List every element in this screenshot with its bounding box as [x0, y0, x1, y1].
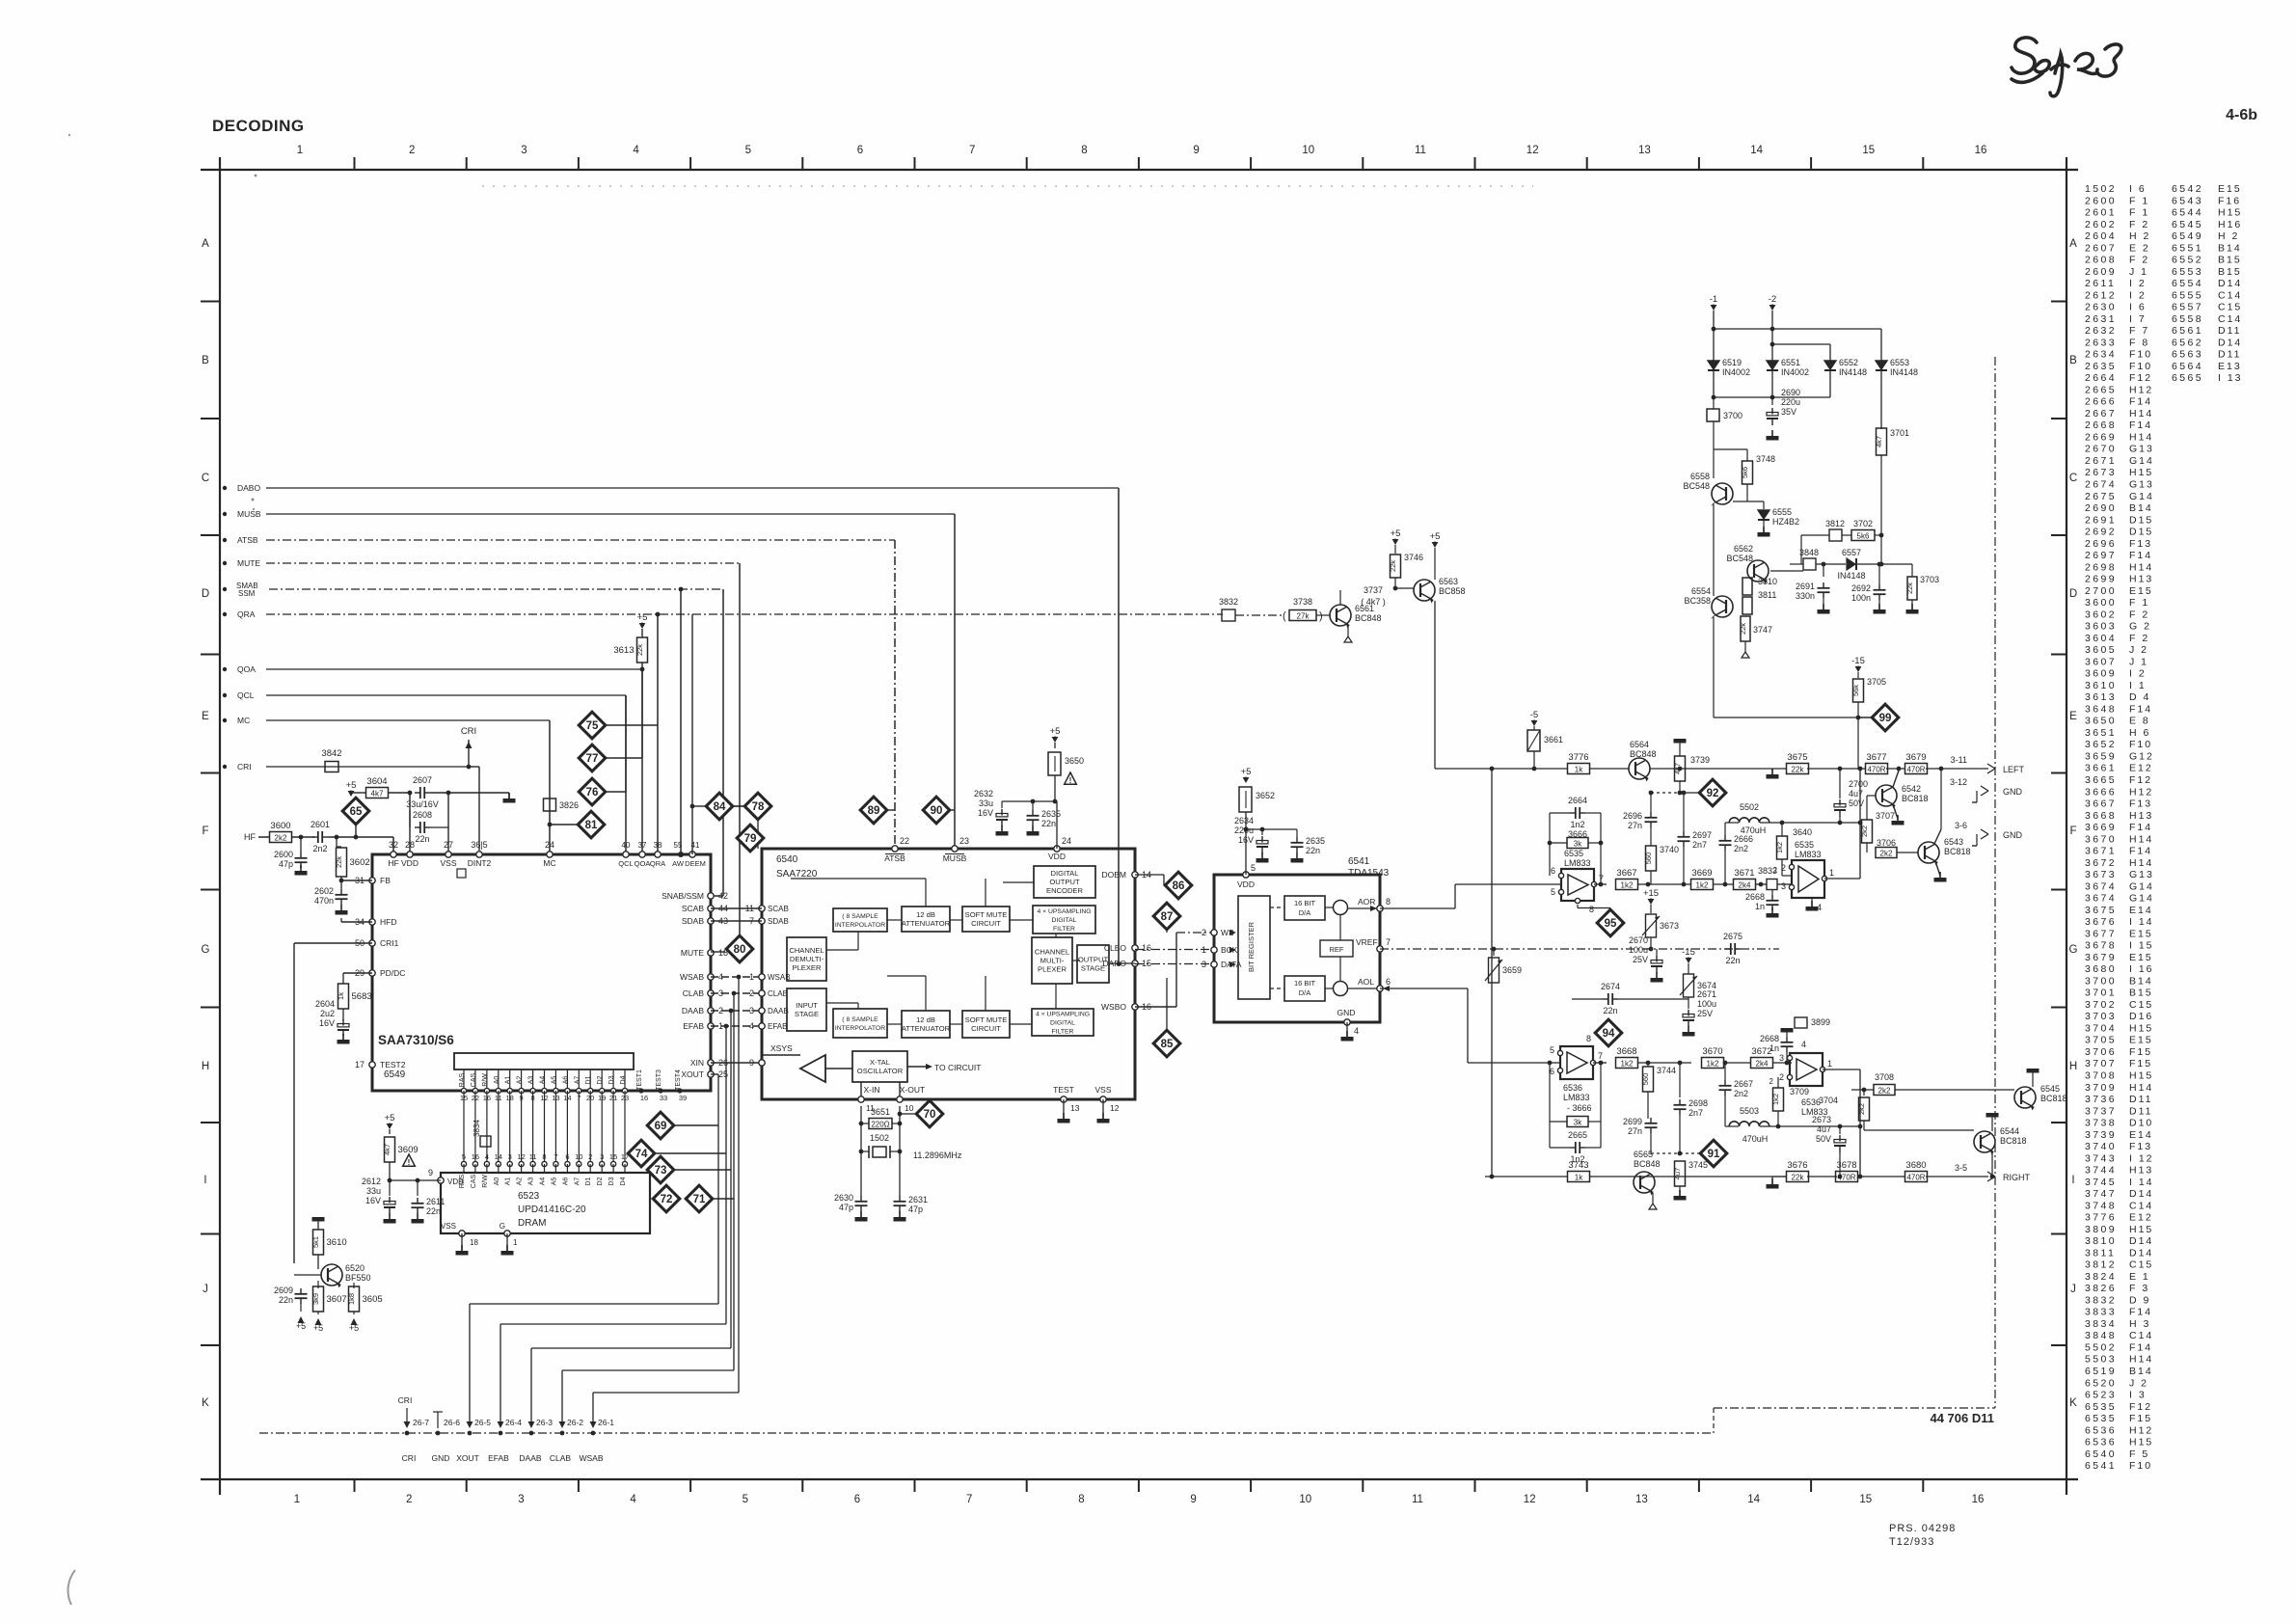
svg-text:TEST2: TEST2 [380, 1060, 406, 1069]
svg-text:2607: 2607 [413, 775, 432, 785]
resistor 3707 [1866, 796, 1868, 820]
svg-text:DIGITAL: DIGITAL [1050, 1020, 1075, 1027]
resistor 3744 [1647, 1063, 1649, 1067]
capacitor 2635 at SAA7220 [1032, 801, 1034, 810]
buffer triangle xsys [762, 1054, 800, 1056]
diamond 76 [579, 778, 606, 805]
svg-text:3669: 3669 [2085, 822, 2117, 833]
wire QRA vertical to pin 38 [657, 614, 659, 854]
svg-text:D2: D2 [597, 1075, 604, 1084]
svg-text:D11: D11 [2129, 1094, 2152, 1105]
transistor 6542 BC818 [1876, 785, 1897, 806]
svg-text:F14: F14 [2129, 846, 2152, 857]
svg-text:3706: 3706 [2085, 1046, 2117, 1058]
svg-text:6549: 6549 [2172, 230, 2203, 242]
svg-text:2633: 2633 [2085, 337, 2117, 348]
svg-text:3738: 3738 [2085, 1118, 2117, 1129]
svg-text:8: 8 [542, 1152, 546, 1161]
svg-text:2666: 2666 [1734, 834, 1753, 844]
svg-text:4k7: 4k7 [371, 789, 384, 798]
svg-text:2634: 2634 [2085, 349, 2117, 361]
svg-text:6535: 6535 [1564, 849, 1583, 858]
svg-text:IN4002: IN4002 [1781, 367, 1809, 377]
svg-text:3677: 3677 [1866, 752, 1886, 763]
svg-text:3748: 3748 [1756, 454, 1775, 464]
diode 6553 IN4148 [1876, 361, 1887, 369]
wire HF [258, 836, 269, 838]
svg-text:4u7: 4u7 [1849, 789, 1863, 798]
capacitor 2690 [1771, 397, 1773, 405]
svg-text:2607: 2607 [2085, 242, 2117, 254]
resistor 5683 on PD/DC [343, 972, 372, 974]
resistor 3607 [317, 1281, 319, 1288]
svg-text:3650: 3650 [1065, 756, 1084, 766]
resistor 3667 [1594, 883, 1607, 885]
svg-text:3650: 3650 [2085, 716, 2117, 727]
svg-text:3679: 3679 [2085, 952, 2117, 963]
svg-text:2670: 2670 [1629, 935, 1648, 945]
svg-text:2604: 2604 [2085, 230, 2117, 242]
svg-text:2k2: 2k2 [1860, 826, 1869, 837]
svg-text:16: 16 [1972, 1494, 1985, 1505]
svg-text:H14: H14 [2129, 833, 2153, 845]
svg-text:I 2: I 2 [2129, 278, 2147, 289]
svg-text:6563: 6563 [1439, 577, 1458, 586]
svg-text:H13: H13 [2129, 810, 2153, 822]
svg-text:3737: 3737 [1364, 585, 1383, 595]
svg-text:220u: 220u [1234, 826, 1254, 835]
svg-text:SNAB/SSM: SNAB/SSM [662, 891, 704, 901]
wire MUTE vertical to diamond 80 and pin 18 [739, 563, 741, 934]
resistor 3743 [1568, 1172, 1590, 1182]
svg-text:2u2: 2u2 [320, 1009, 335, 1018]
svg-text:2691: 2691 [1796, 582, 1815, 591]
svg-text:FILTER: FILTER [1052, 1029, 1074, 1036]
svg-text:A2: A2 [517, 1076, 524, 1085]
svg-text:2k2: 2k2 [275, 833, 287, 842]
resistor 3678 [1836, 1172, 1858, 1182]
svg-text:+5: +5 [349, 1323, 359, 1333]
svg-text:70: 70 [924, 1109, 936, 1121]
dashed bus step to right [1713, 1408, 1715, 1433]
svg-text:2675: 2675 [2085, 491, 2117, 502]
svg-text:2: 2 [1781, 863, 1786, 873]
svg-text:2674: 2674 [2085, 479, 2117, 491]
connector 26-4 [499, 1431, 503, 1436]
svg-text:H14: H14 [2129, 432, 2153, 444]
svg-text:2632: 2632 [2085, 325, 2117, 337]
svg-text:4-6b: 4-6b [2226, 107, 2257, 123]
svg-text:2698: 2698 [2085, 561, 2117, 573]
svg-text:99: 99 [1879, 713, 1892, 724]
svg-text:D10: D10 [2129, 1118, 2153, 1129]
svg-text:8: 8 [1589, 905, 1594, 914]
svg-text:3748: 3748 [2085, 1200, 2117, 1211]
svg-text:42: 42 [718, 891, 728, 901]
svg-text:6543: 6543 [2172, 195, 2203, 206]
svg-text:DECODING: DECODING [212, 117, 305, 135]
svg-text:2698: 2698 [1688, 1098, 1708, 1108]
svg-text:J: J [203, 1284, 208, 1295]
internal register to DA wires [1270, 907, 1284, 908]
svg-text:H: H [202, 1061, 209, 1072]
svg-text:J: J [2070, 1284, 2076, 1295]
svg-text:2k2: 2k2 [1878, 1086, 1891, 1095]
svg-text:2700: 2700 [2085, 585, 2117, 597]
svg-text:E 8: E 8 [2129, 716, 2150, 727]
svg-text:E 2: E 2 [2129, 242, 2150, 254]
svg-text:2696: 2696 [1623, 811, 1642, 821]
svg-text:3609: 3609 [398, 1145, 419, 1155]
capacitor 2604 [342, 1009, 344, 1020]
svg-text:1: 1 [297, 145, 303, 156]
svg-text:16V: 16V [978, 808, 993, 818]
svg-text:73: 73 [655, 1165, 667, 1177]
svg-text:3703: 3703 [1920, 575, 1939, 584]
svg-text:22n: 22n [1306, 846, 1320, 855]
svg-text:K: K [202, 1397, 209, 1409]
wire AOL to opamp 6536 [1380, 988, 1468, 989]
svg-text:22n: 22n [426, 1206, 441, 1216]
svg-text:SAA7310/S6: SAA7310/S6 [378, 1033, 454, 1047]
svg-text:G14: G14 [2129, 880, 2154, 892]
svg-text:E13: E13 [2218, 361, 2242, 372]
wire VDD pin 28 [409, 793, 411, 854]
svg-text:H12: H12 [2129, 1424, 2153, 1436]
ground opamp2 [1811, 898, 1813, 907]
capacitor 2601 [312, 836, 318, 838]
svg-text:3640: 3640 [1793, 827, 1812, 837]
transistor 6561 BC848 [1330, 605, 1351, 626]
svg-text:6551: 6551 [1781, 358, 1800, 367]
svg-text:GND: GND [2003, 787, 2023, 797]
svg-text:( 8 SAMPLE: ( 8 SAMPLE [842, 913, 878, 920]
svg-text:SCAB: SCAB [682, 904, 704, 913]
svg-text:MC: MC [237, 716, 250, 725]
svg-text:92: 92 [1707, 788, 1719, 799]
svg-text:TDA1543: TDA1543 [1348, 868, 1390, 879]
svg-text:3744: 3744 [2085, 1165, 2117, 1177]
svg-text:2668: 2668 [1745, 892, 1765, 902]
svg-text:4 × UPSAMPLING: 4 × UPSAMPLING [1036, 1012, 1090, 1018]
svg-text:22k: 22k [335, 856, 343, 868]
wire rail to 3776 [1527, 768, 1568, 770]
scan artifact pencil mark bottom left [68, 1570, 75, 1605]
svg-text:3832: 3832 [1219, 597, 1238, 607]
svg-text:H15: H15 [2129, 1070, 2153, 1082]
svg-text:9: 9 [749, 1058, 754, 1068]
svg-text:QCL: QCL [237, 690, 255, 700]
svg-text:3675: 3675 [2085, 905, 2117, 916]
svg-text:10: 10 [1299, 1494, 1311, 1505]
column ticks top [354, 157, 356, 170]
svg-text:35V: 35V [1781, 407, 1796, 417]
svg-text:6553: 6553 [1890, 358, 1909, 367]
wire to VDD pin 24 [1002, 800, 1057, 802]
svg-text:G13: G13 [2129, 444, 2154, 455]
svg-text:22n: 22n [415, 834, 429, 844]
svg-text:3613: 3613 [2085, 691, 2117, 703]
svg-text:6535: 6535 [2085, 1401, 2117, 1413]
svg-text:3651: 3651 [871, 1107, 890, 1117]
svg-text:6542: 6542 [2172, 183, 2203, 195]
diamond 91 [1700, 1140, 1727, 1167]
svg-text:INTERPOLATOR: INTERPOLATOR [835, 1025, 885, 1032]
svg-text:6: 6 [565, 1152, 569, 1161]
svg-text:12: 12 [1526, 145, 1539, 156]
svg-text:HF: HF [244, 832, 256, 842]
svg-text:6554: 6554 [2172, 278, 2203, 289]
svg-text:2666: 2666 [2085, 396, 2117, 408]
wire CRI [266, 766, 469, 768]
arrows into bit register [1229, 930, 1236, 935]
svg-text:6563: 6563 [2172, 349, 2203, 361]
svg-text:76: 76 [586, 787, 599, 798]
svg-text:3610: 3610 [327, 1237, 347, 1248]
svg-text:WSAB: WSAB [680, 972, 704, 982]
svg-text:VDD: VDD [1237, 880, 1255, 889]
svg-text:100n: 100n [1851, 593, 1871, 603]
svg-text:7: 7 [966, 1494, 972, 1505]
svg-text:DRAM: DRAM [518, 1218, 546, 1229]
svg-text:4: 4 [1354, 1026, 1359, 1036]
svg-text:1k2: 1k2 [1771, 1094, 1780, 1105]
svg-text:H16: H16 [2218, 219, 2242, 230]
inductor 5502 [1729, 818, 1769, 823]
16 bit D/A upper [1284, 896, 1325, 920]
svg-text:FILTER: FILTER [1053, 926, 1075, 933]
svg-text:H15: H15 [2129, 1023, 2153, 1035]
svg-text:8: 8 [1081, 145, 1087, 156]
svg-text:F 1: F 1 [2129, 195, 2149, 206]
svg-text:16V: 16V [1238, 835, 1254, 845]
svg-text:CRI: CRI [402, 1453, 417, 1463]
svg-text:3648: 3648 [2085, 703, 2117, 715]
svg-text:IN4148: IN4148 [1839, 367, 1867, 377]
svg-text:6535: 6535 [2085, 1413, 2117, 1424]
block interpolator upper [833, 908, 887, 932]
svg-text:C15: C15 [2129, 1259, 2153, 1271]
svg-text:CHANNEL: CHANNEL [789, 946, 824, 955]
svg-text:2671: 2671 [1697, 989, 1716, 999]
SAA7310 left pins [369, 878, 375, 883]
svg-text:D2: D2 [597, 1177, 604, 1185]
capacitor 2671 [1688, 999, 1689, 1009]
svg-text:3811: 3811 [1758, 590, 1776, 600]
svg-text:G14: G14 [2129, 455, 2154, 467]
svg-text:2664: 2664 [1568, 796, 1587, 805]
svg-text:6519: 6519 [1722, 358, 1742, 367]
svg-text:6520: 6520 [345, 1263, 365, 1273]
svg-text:MUSB: MUSB [943, 853, 967, 863]
svg-text:470R: 470R [1906, 1173, 1925, 1181]
svg-text:TO CIRCUIT: TO CIRCUIT [934, 1063, 981, 1072]
svg-text:IN4148: IN4148 [1890, 367, 1918, 377]
svg-text:3680: 3680 [1905, 1160, 1926, 1171]
wire HF to pin 32 [392, 837, 394, 854]
fusible resistor 3650 [1048, 752, 1061, 775]
wire CLBO to TDA BCK [1135, 949, 1214, 951]
TDA1543 right pins [1377, 906, 1383, 911]
svg-text:I 14: I 14 [2129, 916, 2154, 928]
svg-text:H15: H15 [2218, 207, 2242, 219]
svg-text:91: 91 [1708, 1149, 1720, 1160]
resistor 3832 [1222, 609, 1235, 621]
svg-text:220Ω: 220Ω [871, 1120, 889, 1128]
svg-text:6540: 6540 [2085, 1448, 2117, 1460]
svg-text:STAGE: STAGE [1081, 964, 1105, 973]
internal attenuator risers [925, 879, 927, 907]
svg-text:F 2: F 2 [2129, 633, 2149, 644]
svg-text:3776: 3776 [1568, 752, 1588, 763]
svg-text:H 3: H 3 [2129, 1318, 2150, 1330]
wire AOR to opamp 6535 [1380, 907, 1455, 909]
svg-text:CRI: CRI [237, 762, 252, 771]
resistor 3600 [270, 832, 292, 843]
svg-text:5503: 5503 [1740, 1106, 1759, 1116]
svg-text:33u/16V: 33u/16V [406, 799, 439, 809]
svg-text:IN4002: IN4002 [1722, 367, 1750, 377]
svg-text:18: 18 [470, 1238, 478, 1247]
svg-text:+5: +5 [1391, 528, 1401, 539]
svg-text:DEMULTI-: DEMULTI- [790, 955, 824, 963]
svg-text:R/W: R/W [482, 1175, 489, 1188]
svg-text:3745: 3745 [2085, 1177, 2117, 1188]
svg-text:3609: 3609 [2085, 668, 2117, 680]
IC TDA1543 6541 box [1214, 875, 1380, 1022]
svg-text:+5: +5 [1430, 531, 1441, 542]
svg-text:+5: +5 [313, 1323, 323, 1333]
svg-text:2: 2 [1769, 1077, 1774, 1086]
transistor 6544 BC818 [1974, 1131, 1995, 1152]
svg-text:12: 12 [517, 1152, 525, 1161]
resistor 3709 vertical [1773, 1088, 1784, 1111]
svg-text:+5: +5 [1241, 767, 1252, 777]
svg-text:11: 11 [529, 1152, 537, 1161]
svg-text:X-IN: X-IN [864, 1085, 880, 1095]
svg-text:25V: 25V [1697, 1009, 1713, 1018]
resistor 3701 [1877, 428, 1887, 455]
svg-text:81: 81 [585, 820, 598, 831]
svg-text:J 1: J 1 [2129, 266, 2148, 278]
svg-text:2604: 2604 [315, 999, 335, 1009]
svg-text:DAAB: DAAB [682, 1006, 704, 1015]
svg-text:SCAB: SCAB [768, 905, 789, 913]
svg-text:5: 5 [462, 1152, 466, 1161]
svg-text:QOA: QOA [237, 664, 256, 674]
svg-text:WSBO: WSBO [1101, 1002, 1126, 1012]
diamond 84 [706, 793, 733, 820]
svg-text:2: 2 [1773, 866, 1778, 875]
svg-text:22n: 22n [1725, 956, 1740, 965]
svg-text:3600: 3600 [2085, 597, 2117, 609]
svg-text:+5: +5 [346, 780, 357, 791]
svg-text:D: D [202, 588, 209, 600]
svg-text:3600: 3600 [270, 821, 290, 831]
diode 6551 IN4002 [1767, 361, 1778, 369]
svg-text:CRI1: CRI1 [380, 938, 399, 948]
svg-text:UPD41416C-20: UPD41416C-20 [518, 1204, 586, 1215]
svg-text:1k: 1k [337, 992, 345, 1000]
SAA7310 right pins [708, 893, 714, 899]
svg-text:H: H [2069, 1061, 2077, 1072]
svg-text:6555: 6555 [2172, 289, 2203, 301]
svg-text:ATTENUATOR: ATTENUATOR [902, 1024, 951, 1033]
TDA1543 left pins [1211, 930, 1217, 935]
svg-text:3740: 3740 [2085, 1141, 2117, 1152]
svg-text:XOUT: XOUT [681, 1069, 704, 1079]
wire CRI1 to transistor 6520 [294, 942, 372, 944]
svg-text:2602: 2602 [2085, 219, 2117, 230]
svg-text:D4: D4 [620, 1075, 627, 1084]
svg-text:SOFT MUTE: SOFT MUTE [965, 1015, 1008, 1024]
svg-text:A5: A5 [551, 1177, 557, 1186]
svg-text:E15: E15 [2129, 928, 2153, 939]
svg-text:D15: D15 [2129, 527, 2153, 538]
svg-text:10: 10 [1302, 145, 1314, 156]
svg-text:2611: 2611 [426, 1197, 445, 1206]
svg-text:2: 2 [588, 1152, 592, 1161]
svg-text:F14: F14 [2129, 1342, 2152, 1354]
svg-text:I 7: I 7 [2129, 313, 2147, 325]
diode 6519 IN4002 [1708, 361, 1719, 369]
capacitor 2692 [1878, 575, 1880, 582]
svg-text:5683: 5683 [352, 991, 372, 1002]
svg-text:5: 5 [1251, 863, 1256, 873]
svg-text:3603: 3603 [2085, 621, 2117, 633]
svg-text:3610: 3610 [2085, 680, 2117, 691]
internal wiring SAA7220 lower chain [887, 1023, 902, 1025]
svg-text:SDAB: SDAB [768, 917, 789, 926]
diamond 85 [1153, 1030, 1180, 1057]
svg-text:VDD: VDD [401, 858, 419, 868]
svg-text:A6: A6 [562, 1076, 569, 1085]
svg-text:3659: 3659 [1502, 965, 1522, 975]
svg-text:3739: 3739 [1690, 755, 1710, 765]
DRAM VSS pin [459, 1231, 465, 1236]
svg-text:4: 4 [749, 1021, 754, 1031]
svg-text:3671: 3671 [2085, 846, 2117, 857]
svg-text:INTERPOLATOR: INTERPOLATOR [835, 922, 885, 929]
svg-text:6565: 6565 [1634, 1150, 1653, 1159]
svg-text:QCL: QCL [618, 859, 633, 868]
SAA7220 left pins [759, 906, 765, 911]
svg-text:3605: 3605 [363, 1294, 383, 1305]
capacitor 2602 on FB pin [341, 880, 372, 881]
svg-text:+15: +15 [1643, 888, 1659, 899]
svg-text:3676: 3676 [2085, 916, 2117, 928]
svg-text:G: G [202, 944, 210, 956]
svg-text:3776: 3776 [2085, 1212, 2117, 1224]
svg-text:E15: E15 [2129, 952, 2153, 963]
svg-text:E15: E15 [2129, 585, 2153, 597]
svg-text:BC818: BC818 [1902, 794, 1929, 803]
svg-text:95: 95 [1605, 918, 1617, 930]
svg-text:2k4: 2k4 [1756, 1059, 1769, 1068]
svg-text:4k7: 4k7 [1673, 763, 1682, 774]
diamond 74 [628, 1140, 655, 1167]
svg-text:7: 7 [1386, 937, 1391, 947]
wire QCL [266, 694, 626, 696]
svg-text:A2: A2 [517, 1177, 524, 1186]
svg-text:50V: 50V [1849, 798, 1864, 808]
bit register block [1238, 896, 1270, 999]
svg-text:6564: 6564 [2172, 361, 2203, 372]
svg-text:I 13: I 13 [2218, 372, 2243, 384]
svg-text:E14: E14 [2129, 905, 2153, 916]
SAA7310 memory bus pins [463, 1069, 465, 1091]
svg-text:6562: 6562 [2172, 337, 2203, 348]
